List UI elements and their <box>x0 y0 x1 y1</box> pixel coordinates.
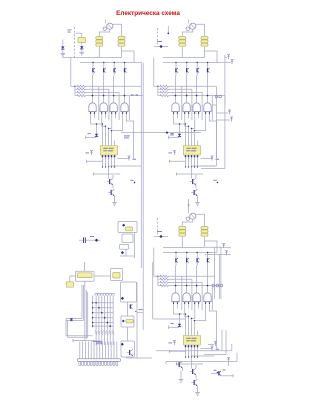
wire corner v <box>65 319 67 336</box>
resistor R32 <box>160 278 169 280</box>
bus wire right <box>142 63 144 331</box>
bus labels <box>131 94 134 97</box>
led VD2 <box>178 134 181 137</box>
vcc arrow <box>228 55 230 59</box>
wire ic down <box>111 159 113 167</box>
ground <box>195 392 200 394</box>
nand gate G32 <box>183 293 190 302</box>
wire gate1 out <box>175 76 177 103</box>
transistor Q26 <box>191 192 193 194</box>
relay coil K31 <box>179 227 186 230</box>
label <box>139 308 143 311</box>
wire stub arrow <box>187 205 189 208</box>
wire ic down <box>191 349 193 357</box>
ic bottom pin <box>111 155 113 159</box>
wire fuse top <box>81 33 83 37</box>
wire coil2 down <box>204 47 206 58</box>
nand gate G13 <box>110 103 117 112</box>
resistor R23 <box>160 91 169 93</box>
wire led feed <box>96 124 98 134</box>
wire coil2 right <box>205 241 218 253</box>
ic bottom pin <box>188 155 190 159</box>
wire ic pin <box>188 331 190 336</box>
wire ic pin <box>111 141 113 146</box>
ground <box>179 379 184 381</box>
ic bottom pin <box>108 155 110 159</box>
nand gate G11 <box>89 103 96 112</box>
wire top feed 2 <box>188 20 190 24</box>
wire ic down <box>185 349 187 357</box>
wire corner h bot <box>66 335 93 337</box>
fuse F1 <box>78 38 86 43</box>
vcc arrow right <box>128 157 130 161</box>
wire k13 link <box>94 275 111 277</box>
wire dashed feed <box>156 218 158 235</box>
wire coil1 down <box>98 47 100 58</box>
wire nest h3 <box>212 104 216 106</box>
nand gate G12 <box>100 103 107 112</box>
wire cap line <box>79 239 83 241</box>
relay coil K32 <box>201 227 208 230</box>
wire ic pin <box>194 331 196 336</box>
transistor Q24 <box>207 63 209 69</box>
wire k11-k12 <box>70 276 76 282</box>
diode D3 <box>159 235 162 238</box>
ground <box>61 52 66 54</box>
vcc arrow <box>231 118 233 122</box>
wire ic pin <box>197 331 199 336</box>
wire ic pin <box>191 141 193 146</box>
transistor Q21 <box>175 63 177 69</box>
wire h166 <box>192 355 215 357</box>
box sub6 <box>121 341 135 357</box>
ic bottom pin <box>197 345 199 349</box>
wire gate1 out <box>175 266 177 293</box>
relay K11 <box>76 271 95 281</box>
wire motor-coil1 <box>182 219 193 226</box>
relay coil K21 <box>179 37 186 40</box>
wire gate4 out <box>124 76 126 103</box>
matrix tops <box>95 294 97 296</box>
vcc arrow <box>229 111 231 115</box>
wire coil2 right <box>122 51 135 63</box>
wire ic pin <box>114 141 116 146</box>
wire ic down <box>188 349 190 357</box>
transistor Q35 <box>190 371 192 373</box>
wire ic down <box>102 159 104 167</box>
component mid <box>166 131 169 134</box>
ic bottom pin <box>185 155 187 159</box>
wire k11 pins <box>81 285 83 319</box>
wire coil1 down <box>181 237 183 248</box>
wire C v1 <box>213 247 215 299</box>
wire gnd <box>180 371 182 379</box>
transistor Q16 <box>108 192 110 194</box>
wire bus h2 <box>163 62 224 64</box>
led VD12 <box>121 251 124 254</box>
wire ic pin <box>185 331 187 336</box>
ground <box>195 202 200 204</box>
wire motor-coil2 <box>195 24 204 36</box>
wire ic pin <box>105 141 107 146</box>
box outline sub4 <box>121 282 137 302</box>
wire res-bus link <box>70 58 72 87</box>
wire sub down <box>134 233 136 259</box>
wire ic pin <box>102 141 104 146</box>
nand gate G24 <box>204 103 211 112</box>
ic bottom pin <box>194 345 196 349</box>
resistor R22 <box>160 88 169 90</box>
ic U2 <box>183 146 200 156</box>
wire C h1 <box>205 246 231 248</box>
label <box>157 40 162 43</box>
wire gate3 out <box>196 266 198 293</box>
label box <box>93 340 102 343</box>
relay K13 <box>111 269 123 281</box>
motor M3 <box>190 213 196 219</box>
wire ic pin <box>188 141 190 146</box>
wire ic down <box>188 159 190 167</box>
resistor R33 <box>160 281 169 283</box>
ic bottom pin <box>191 345 193 349</box>
ic bottom pin <box>102 155 104 159</box>
loop marks <box>212 284 215 287</box>
wire stair merge <box>174 308 186 330</box>
transistor Q34 <box>207 253 209 259</box>
wire h166 <box>192 165 217 167</box>
wire top feed 1 <box>105 20 107 24</box>
transistor Q23 <box>130 304 131 308</box>
wire ic down <box>105 159 107 167</box>
wire gate2 out <box>186 266 188 293</box>
led VD13 <box>121 297 124 300</box>
motor M1 <box>107 23 113 29</box>
capacitor C1 <box>83 237 85 243</box>
wire diode-gnd <box>81 49 83 52</box>
vcc arrow right <box>211 157 213 161</box>
vcc arrow left <box>91 151 93 155</box>
transistor Q22 <box>186 63 188 69</box>
vcc arrow right <box>211 347 213 351</box>
resistor array <box>95 330 97 334</box>
transistor Q13 <box>113 63 115 69</box>
led VD15 <box>121 343 124 346</box>
wire left col <box>62 40 64 47</box>
wire h174 <box>94 173 121 175</box>
ground <box>80 51 85 53</box>
wire dashed feed <box>156 28 158 45</box>
relay small K10 <box>126 227 133 231</box>
wire ic down <box>185 159 187 167</box>
wire gate2 out <box>186 76 188 103</box>
wire ic down <box>108 159 110 167</box>
wire h161 <box>87 160 104 162</box>
wire ic down <box>114 159 116 167</box>
svg-text:Електрическа схема: Електрическа схема <box>116 10 180 17</box>
wire coil1 down <box>181 47 183 58</box>
led VD1 <box>95 134 98 137</box>
wire diode link <box>154 236 168 238</box>
box sub5 <box>121 316 134 327</box>
relay coil K22 <box>201 37 208 40</box>
wire ic pin <box>197 141 199 146</box>
wire ic down <box>194 159 196 167</box>
wire gate3 out <box>113 76 115 103</box>
wire sub links <box>127 302 129 316</box>
wire ic pin <box>191 331 193 336</box>
wire C v4 <box>221 330 223 351</box>
ic U1 <box>100 146 117 156</box>
resistor R34 <box>160 285 169 287</box>
wire ic pin <box>108 141 110 146</box>
junction <box>217 182 219 184</box>
transistor Q24 <box>218 371 219 375</box>
wire fuse down <box>81 43 83 46</box>
wire motor-coil1 <box>182 29 193 36</box>
vcc arrow <box>226 251 228 255</box>
wire top feed 3 <box>188 210 190 214</box>
wire B-C link <box>188 199 190 210</box>
wire h161 <box>170 160 187 162</box>
wire led feed <box>179 124 181 134</box>
wire midline <box>121 132 201 134</box>
wire bus h2 <box>80 62 141 64</box>
vcc arrow <box>223 244 225 248</box>
wire coil2 right <box>205 51 218 63</box>
wire gate4 out <box>207 266 209 293</box>
wire ic down <box>197 159 199 167</box>
wire led left <box>169 136 180 138</box>
switch S1 <box>70 318 72 321</box>
wire h174 <box>177 173 204 175</box>
box sub2 <box>122 234 133 243</box>
wire h174 <box>177 363 204 365</box>
loop marks <box>215 95 218 98</box>
wire matrix verticals <box>95 296 97 331</box>
resistor R21 <box>160 85 169 87</box>
nand gate G23 <box>193 103 200 112</box>
transistor Q15 <box>107 181 109 183</box>
resistor R14 <box>77 95 86 97</box>
led VD11 <box>122 224 125 227</box>
led VD14 <box>122 320 125 323</box>
vcc arrow left <box>174 341 176 345</box>
wire pins v <box>84 281 86 341</box>
wire ic pin <box>194 141 196 146</box>
wire res-bus link <box>153 58 155 87</box>
wire C left rail <box>152 262 154 319</box>
wire stair merge <box>174 118 186 140</box>
wire motor-coil1 <box>99 29 110 36</box>
wire C h2 <box>205 254 231 256</box>
wire led left <box>86 136 97 138</box>
wire corner h top <box>66 318 82 320</box>
resistor R24 <box>160 95 169 97</box>
wire h166 <box>109 165 142 167</box>
wire res feed <box>154 85 160 87</box>
wire ic down <box>194 349 196 357</box>
wire motor-coil2 <box>195 214 204 226</box>
diode D2 <box>159 45 162 48</box>
nand gate G22 <box>183 103 190 112</box>
junction <box>217 372 219 374</box>
ic bottom pin <box>194 155 196 159</box>
nand gate G33 <box>193 293 200 302</box>
box outline sub1 <box>118 222 137 233</box>
relay K12 <box>66 282 73 287</box>
relay coil K11 <box>96 37 103 40</box>
wire stub <box>167 26 169 33</box>
transistor Q14 <box>124 63 126 69</box>
wire gate3 out <box>196 76 198 103</box>
wire to q5 <box>108 167 110 179</box>
ic bottom pin <box>188 345 190 349</box>
wire res feed <box>154 275 160 277</box>
wire to q5 <box>191 167 193 179</box>
wire motor-coil2 <box>112 24 121 36</box>
transistor Q31 <box>175 253 177 259</box>
vcc arrow <box>228 358 230 362</box>
wire matrix horizontals <box>93 302 114 304</box>
wire long h <box>166 361 237 363</box>
ic bottom pin <box>105 155 107 159</box>
nand gate G34 <box>204 293 211 302</box>
ic bottom pin <box>197 155 199 159</box>
label texts <box>68 29 72 32</box>
led VD10 <box>95 239 98 242</box>
wire res-bus link <box>153 248 155 277</box>
label <box>90 235 94 238</box>
wire diode link <box>154 46 168 48</box>
wire C v2 <box>218 255 220 300</box>
bus wire left <box>140 63 142 269</box>
wire ic pin <box>185 141 187 146</box>
wire k11 up <box>84 262 86 271</box>
junction <box>134 182 136 184</box>
vcc arrow left <box>174 151 176 155</box>
resistor R12 <box>77 88 86 90</box>
motor M2 <box>190 23 196 29</box>
vcc arrow <box>215 342 217 346</box>
wire mid h <box>73 340 96 342</box>
wire gate1 out <box>92 76 94 103</box>
diode D1 <box>80 46 83 49</box>
transistor Q11 <box>92 63 94 69</box>
ic bottom pin <box>191 155 193 159</box>
wire gate4 out <box>207 76 209 103</box>
resistor R31 <box>160 275 169 277</box>
label <box>157 230 162 233</box>
nand gate G14 <box>121 103 128 112</box>
wire stair merge <box>91 118 103 140</box>
nand gate G31 <box>172 293 179 302</box>
wire coil2 down <box>121 47 123 58</box>
wire bus h1 <box>163 247 205 249</box>
wire led left <box>169 326 180 328</box>
transistor Q33 <box>196 253 198 259</box>
wire matrix down <box>95 335 97 345</box>
wire connector feeds <box>79 342 81 359</box>
wire C v3 <box>220 247 222 299</box>
transistor Q32 <box>186 253 188 259</box>
relay K14 <box>126 319 134 323</box>
wire led feed <box>179 314 181 324</box>
wire ic down <box>191 159 193 167</box>
wire nest h1 <box>201 165 216 167</box>
transistor Q36 <box>191 382 193 384</box>
wire dashed feed <box>73 27 75 58</box>
wire bus h2 <box>163 252 217 254</box>
nand gate G21 <box>172 103 179 112</box>
wire nest v1 <box>215 86 217 166</box>
wire h161 <box>170 350 187 352</box>
wire left up <box>62 53 64 58</box>
resistor R11 <box>77 85 86 87</box>
transistor Q12 <box>103 63 105 69</box>
wire ic down <box>197 349 199 357</box>
ic U3 <box>183 336 200 346</box>
wire nest v2 <box>224 55 226 169</box>
wire to q5 <box>191 357 193 369</box>
transistor Q21 <box>127 352 129 354</box>
label <box>124 135 130 138</box>
wire C corner h <box>156 350 222 352</box>
transistor Q22 <box>176 364 178 366</box>
transistor Q25 <box>190 181 192 183</box>
wire bus h1 <box>63 57 122 59</box>
led VD3 <box>178 324 181 327</box>
ground <box>112 202 117 204</box>
resistor R13 <box>77 91 86 93</box>
ic bottom pin <box>185 345 187 349</box>
wire res feed <box>71 85 77 87</box>
wire right rail <box>136 282 138 358</box>
vcc arrow <box>231 60 233 64</box>
connector X1 <box>77 359 120 362</box>
box sub3 <box>120 244 129 249</box>
wire coil2 down <box>204 237 206 248</box>
wire rail-bus <box>137 312 143 314</box>
transistor Q23 <box>196 63 198 69</box>
ic bottom pin <box>114 155 116 159</box>
wire bus h1 <box>163 57 205 59</box>
diode D2 <box>61 46 64 49</box>
wire matrix left <box>92 296 94 328</box>
wire gate2 out <box>103 76 105 103</box>
wire d2-gnd <box>62 50 64 53</box>
wire nest h2 <box>201 168 225 170</box>
relay coil K12 <box>118 37 125 40</box>
